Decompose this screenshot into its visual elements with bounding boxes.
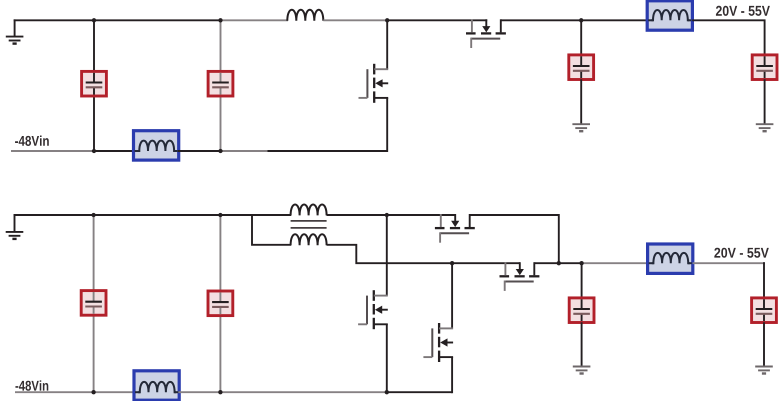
capacitor C6 (input cap 2, bottom circuit) — [208, 291, 233, 316]
node I junction (winding 2 / Q6 drain / Q4) — [450, 261, 454, 265]
wire: Q3 drain right then down to node H — [470, 215, 559, 263]
wire -48V rail: filter box to C6 node — [178, 391, 220, 393]
junction -48V rail / C5 — [91, 390, 95, 394]
node E junction (top rail / C5) — [91, 213, 95, 217]
wire: C3 to ground — [580, 79, 582, 124]
wire: Q2 drain to node D — [501, 19, 581, 21]
ground symbol (under C7) — [573, 367, 591, 374]
wire: L2 to output, corner down to C4 — [692, 20, 764, 55]
label -48Vin (top circuit) — [15, 136, 49, 146]
capacitor C8 (output cap 2, bottom circuit) — [752, 298, 777, 323]
inductor L3 (input EMI filter choke, top circuit) — [134, 131, 179, 160]
wire: Q1 source down to bottom rail — [386, 98, 388, 152]
coupled inductor core lines — [291, 221, 327, 228]
wire: node C down to Q1 drain — [386, 20, 388, 69]
wire -48V rail: C6 node to Q5 source node — [220, 391, 386, 393]
transistor Q4 (synchronous pass MOSFET, phase 2) — [500, 262, 540, 291]
node A junction (top rail / C1) — [92, 18, 96, 22]
wire -48V rail: midpoint to Q1 source corner — [267, 150, 387, 152]
junction -48V rail / Q5 source — [385, 390, 389, 394]
ground symbol (under C3) — [572, 124, 590, 131]
wire top rail: node E to node F — [94, 214, 221, 216]
wire: C7 to ground — [581, 322, 583, 366]
capacitor C3 (output cap, top circuit) — [569, 55, 594, 80]
node D junction (Q2 / C3 / L2) — [579, 18, 583, 22]
ground symbol (input ground, top circuit) — [6, 37, 24, 44]
label -48Vin (bottom circuit) — [15, 380, 48, 390]
wire: node J down to C7 — [581, 263, 583, 298]
wire -48V rail: Q5 node to Q6 source corner — [387, 391, 452, 393]
wire top rail: ground to node A — [14, 19, 94, 21]
transistor Q2 (synchronous pass MOSFET, top circuit) — [466, 19, 506, 48]
wire top rail: node F to coupled inductor — [220, 214, 291, 216]
inductor L4a (coupled inductor winding 1) — [291, 204, 327, 215]
wire: node H to node J — [559, 262, 582, 264]
wire top rail: L1 to node C — [323, 19, 387, 21]
wire -48V rail: C2 node to midpoint — [221, 150, 268, 152]
wire -48V rail: left end to C1 node — [11, 150, 94, 152]
wire: output corner down to C8 — [763, 262, 765, 297]
wire: phase-2 tap down from top rail — [252, 215, 291, 245]
transistor Q6 (boost switch MOSFET, phase 2) — [423, 323, 453, 362]
wire node B column (C2 branch) — [220, 20, 222, 151]
wire node A column (C1 branch) — [93, 20, 95, 151]
wire: node G to pass FET Q3 — [387, 214, 455, 216]
ground lead (input ground, top circuit) — [14, 19, 16, 36]
wire: node C to pass FET Q2 source — [387, 19, 487, 21]
wire: node J to filter inductor box — [582, 262, 649, 264]
wire -48V rail: C1 node to EMI filter box — [94, 150, 134, 152]
junction -48V rail / C6 — [218, 390, 222, 394]
wire -48V rail: filter box to C2 node — [178, 150, 221, 152]
wire: node I to pass FET Q4 — [452, 262, 520, 264]
label 20V - 55V (bottom circuit output) — [714, 248, 768, 258]
wire: Q5 source down to bottom rail — [386, 324, 388, 393]
junction -48V rail / C2 — [218, 149, 222, 153]
wire node E column (C5 branch) — [93, 215, 95, 392]
label 20V - 55V (top circuit output) — [716, 6, 770, 16]
inductor L1 (boost inductor, top circuit) — [287, 10, 323, 21]
capacitor C4 (output cap 2, top circuit) — [752, 55, 777, 80]
transistor Q1 (boost switch MOSFET, top circuit) — [359, 64, 389, 103]
transistor Q5 (boost switch MOSFET, phase 1) — [358, 290, 388, 329]
ground symbol (under C4) — [756, 124, 774, 131]
wire: Q4 drain to node H — [535, 262, 559, 264]
wire: L5 to output corner — [693, 262, 765, 264]
inductor L5 (output filter choke, bottom circuit) — [648, 244, 693, 273]
ground symbol (under C8) — [755, 367, 773, 374]
wire top rail: node A to node B — [94, 19, 221, 21]
inductor L2 (output filter choke, top circuit) — [647, 1, 692, 30]
transistor Q3 (synchronous pass MOSFET, phase 1) — [435, 214, 475, 243]
ground lead (input ground, bottom circuit) — [14, 214, 16, 231]
capacitor C5 (input cap, bottom circuit) — [81, 291, 106, 316]
node H junction (Q3 / Q4 drains) — [557, 261, 561, 265]
junction -48V rail / C1 — [92, 149, 96, 153]
wire: C8 to ground — [763, 322, 765, 366]
inductor L4b (coupled inductor winding 2) — [291, 234, 327, 245]
wire node F column (C6 branch) — [219, 215, 221, 392]
wire -48V rail: C5 node to EMI filter box — [94, 391, 135, 393]
wire: winding 2 right, down, to node I — [327, 245, 453, 263]
capacitor C1 (input cap, top circuit) — [82, 71, 107, 96]
capacitor C2 (input cap 2, top circuit) — [208, 71, 233, 96]
wire: Q6 source down to bottom rail — [451, 357, 453, 393]
wire: node D down to C3 — [580, 20, 582, 55]
capacitor C7 (output cap, bottom circuit) — [569, 298, 594, 323]
node J junction (output node / C7 / L5) — [579, 261, 583, 265]
node B junction (top rail / C2) — [218, 18, 222, 22]
node F junction (top rail / C6) — [218, 213, 222, 217]
wire: C4 to ground — [764, 79, 766, 124]
ground symbol (input ground, bottom circuit) — [6, 232, 24, 239]
wire top rail: ground to node E — [14, 214, 94, 216]
wire: node D to filter inductor box — [581, 19, 648, 21]
wire: node I down to Q6 drain — [451, 263, 453, 328]
wire -48V rail: left end to C5 node — [15, 391, 94, 393]
inductor L6 (input EMI filter choke, bottom circuit) — [134, 371, 179, 400]
node G junction (winding 1 / Q5 drain / Q3) — [385, 213, 389, 217]
node C junction (L1 / Q1 drain / Q2) — [385, 18, 389, 22]
wire top rail: node B to inductor L1 — [221, 19, 289, 21]
wire top rail: winding 1 to node G — [327, 214, 387, 216]
wire: node G down to Q5 drain (crosses phase-2 wire) — [386, 215, 388, 296]
